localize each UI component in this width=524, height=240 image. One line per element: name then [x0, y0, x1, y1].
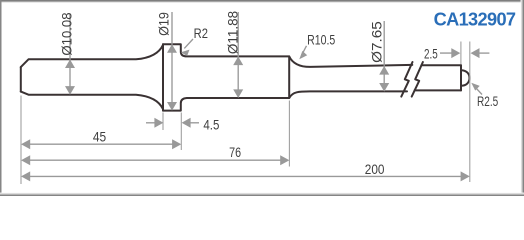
border frame right — [521, 0, 524, 196]
svg-text:2.5: 2.5 — [424, 46, 438, 61]
border frame bottom — [0, 193, 524, 196]
dim 76 line — [21, 155, 289, 165]
extension line collar right — [180, 113, 182, 151]
break zigzag left — [401, 62, 412, 97]
rounded tip dome R2.5 — [461, 70, 470, 86]
dim 45 line — [21, 139, 181, 149]
leader R2 — [181, 39, 193, 56]
dim arrow O19 — [167, 12, 177, 111]
border frame left — [0, 0, 2, 196]
break zigzag right — [412, 62, 423, 97]
dim 200 line — [21, 171, 470, 181]
svg-text:76: 76 — [229, 145, 241, 160]
part outline: shank top profile — [21, 44, 413, 67]
border frame top — [0, 0, 524, 2]
extension line collar left — [162, 113, 164, 131]
svg-text:Ø10.08: Ø10.08 — [59, 12, 74, 56]
dim arrow O10.08 — [65, 14, 75, 95]
dim arrow O7.65 — [379, 21, 389, 92]
right end face — [460, 65, 462, 90]
after-break top edge — [421, 64, 461, 66]
dim arrow O11.88 — [233, 12, 243, 98]
after-break bottom edge — [415, 89, 461, 91]
svg-text:CA132907: CA132907 — [434, 9, 516, 29]
svg-text:4.5: 4.5 — [203, 118, 219, 133]
svg-text:Ø11.88: Ø11.88 — [226, 11, 241, 55]
dim 4.5 arrows — [146, 118, 199, 128]
extension line left datum — [20, 96, 22, 185]
svg-text:200: 200 — [365, 162, 385, 177]
extension line right datum 200 — [469, 42, 471, 183]
shoulder end face at 76mm — [288, 56, 290, 98]
part outline: shank bottom profile — [21, 91, 407, 110]
dim 2.5 arrows — [440, 48, 489, 58]
svg-text:Ø19: Ø19 — [156, 12, 171, 36]
leader R2.5 — [471, 83, 482, 95]
svg-text:Ø7.65: Ø7.65 — [369, 21, 384, 63]
svg-text:R2: R2 — [194, 26, 208, 41]
leader R10.5 — [299, 46, 307, 60]
svg-text:R10.5: R10.5 — [307, 32, 335, 47]
left tip end face — [20, 67, 22, 92]
extension line 76 end — [288, 101, 290, 167]
extension line 2.5 start — [460, 42, 462, 65]
svg-text:R2.5: R2.5 — [477, 94, 498, 109]
svg-text:45: 45 — [93, 129, 107, 144]
collar left face — [162, 44, 164, 110]
